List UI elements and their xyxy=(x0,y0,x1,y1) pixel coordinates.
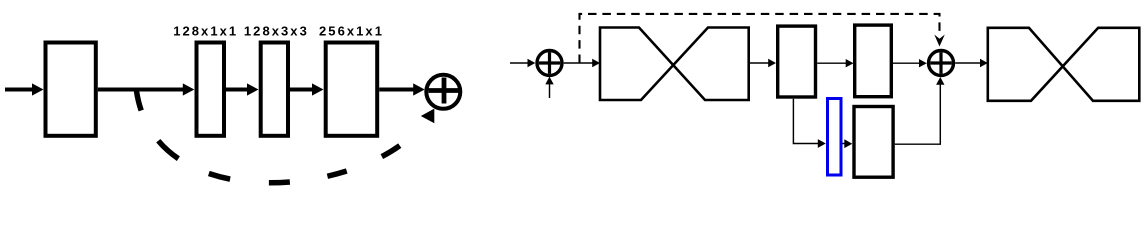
svg-text:128x3x3: 128x3x3 xyxy=(244,24,309,39)
svg-text:128x1x1: 128x1x1 xyxy=(173,24,238,39)
svg-text:256x1x1: 256x1x1 xyxy=(319,24,384,39)
